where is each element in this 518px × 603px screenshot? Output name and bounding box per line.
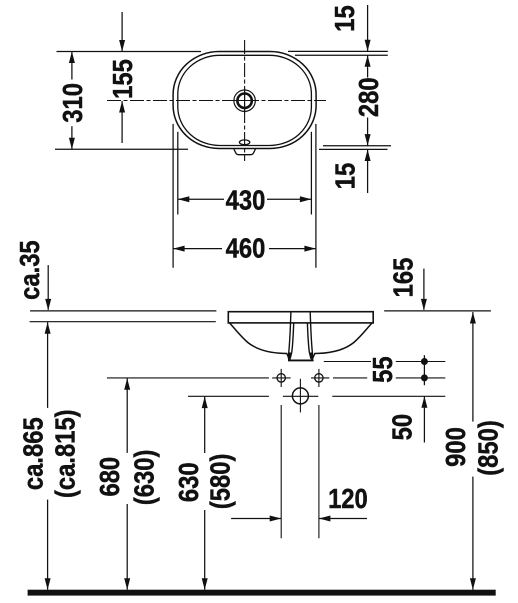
svg-text:15: 15 (329, 163, 361, 189)
svg-text:430: 430 (226, 184, 266, 216)
svg-text:55: 55 (366, 356, 398, 382)
svg-text:630: 630 (172, 462, 204, 502)
svg-text:680: 680 (93, 457, 125, 497)
svg-text:ca.865: ca.865 (17, 417, 49, 490)
svg-text:50: 50 (385, 414, 417, 440)
svg-text:900: 900 (439, 427, 471, 467)
svg-text:(ca.815): (ca.815) (49, 409, 81, 498)
svg-text:280: 280 (352, 77, 384, 117)
svg-text:310: 310 (56, 83, 88, 123)
svg-text:ca.35: ca.35 (13, 240, 45, 300)
svg-text:120: 120 (328, 482, 368, 514)
svg-text:460: 460 (226, 232, 266, 264)
svg-text:165: 165 (387, 258, 419, 298)
svg-text:(630): (630) (128, 450, 160, 506)
svg-text:(580): (580) (204, 454, 236, 510)
svg-text:15: 15 (328, 5, 360, 31)
svg-text:(850): (850) (472, 420, 504, 476)
svg-text:155: 155 (106, 59, 138, 99)
